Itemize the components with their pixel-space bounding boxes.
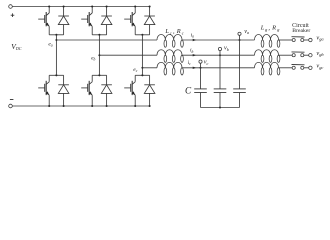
svg-text:L: L xyxy=(260,25,265,32)
svg-text:R: R xyxy=(271,25,276,32)
svg-text:R: R xyxy=(176,28,181,35)
svg-text:c: c xyxy=(170,30,172,35)
svg-text:L: L xyxy=(164,28,169,35)
svg-text:c: c xyxy=(182,30,184,35)
svg-text:Breaker: Breaker xyxy=(292,28,310,34)
svg-text:C: C xyxy=(185,86,192,96)
